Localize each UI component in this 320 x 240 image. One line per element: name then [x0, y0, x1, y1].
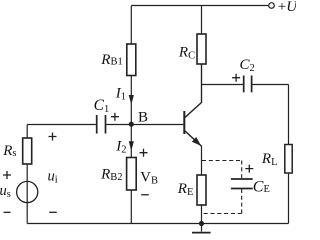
svg-text:B: B [138, 109, 148, 125]
svg-text:+U: +U [278, 0, 296, 15]
